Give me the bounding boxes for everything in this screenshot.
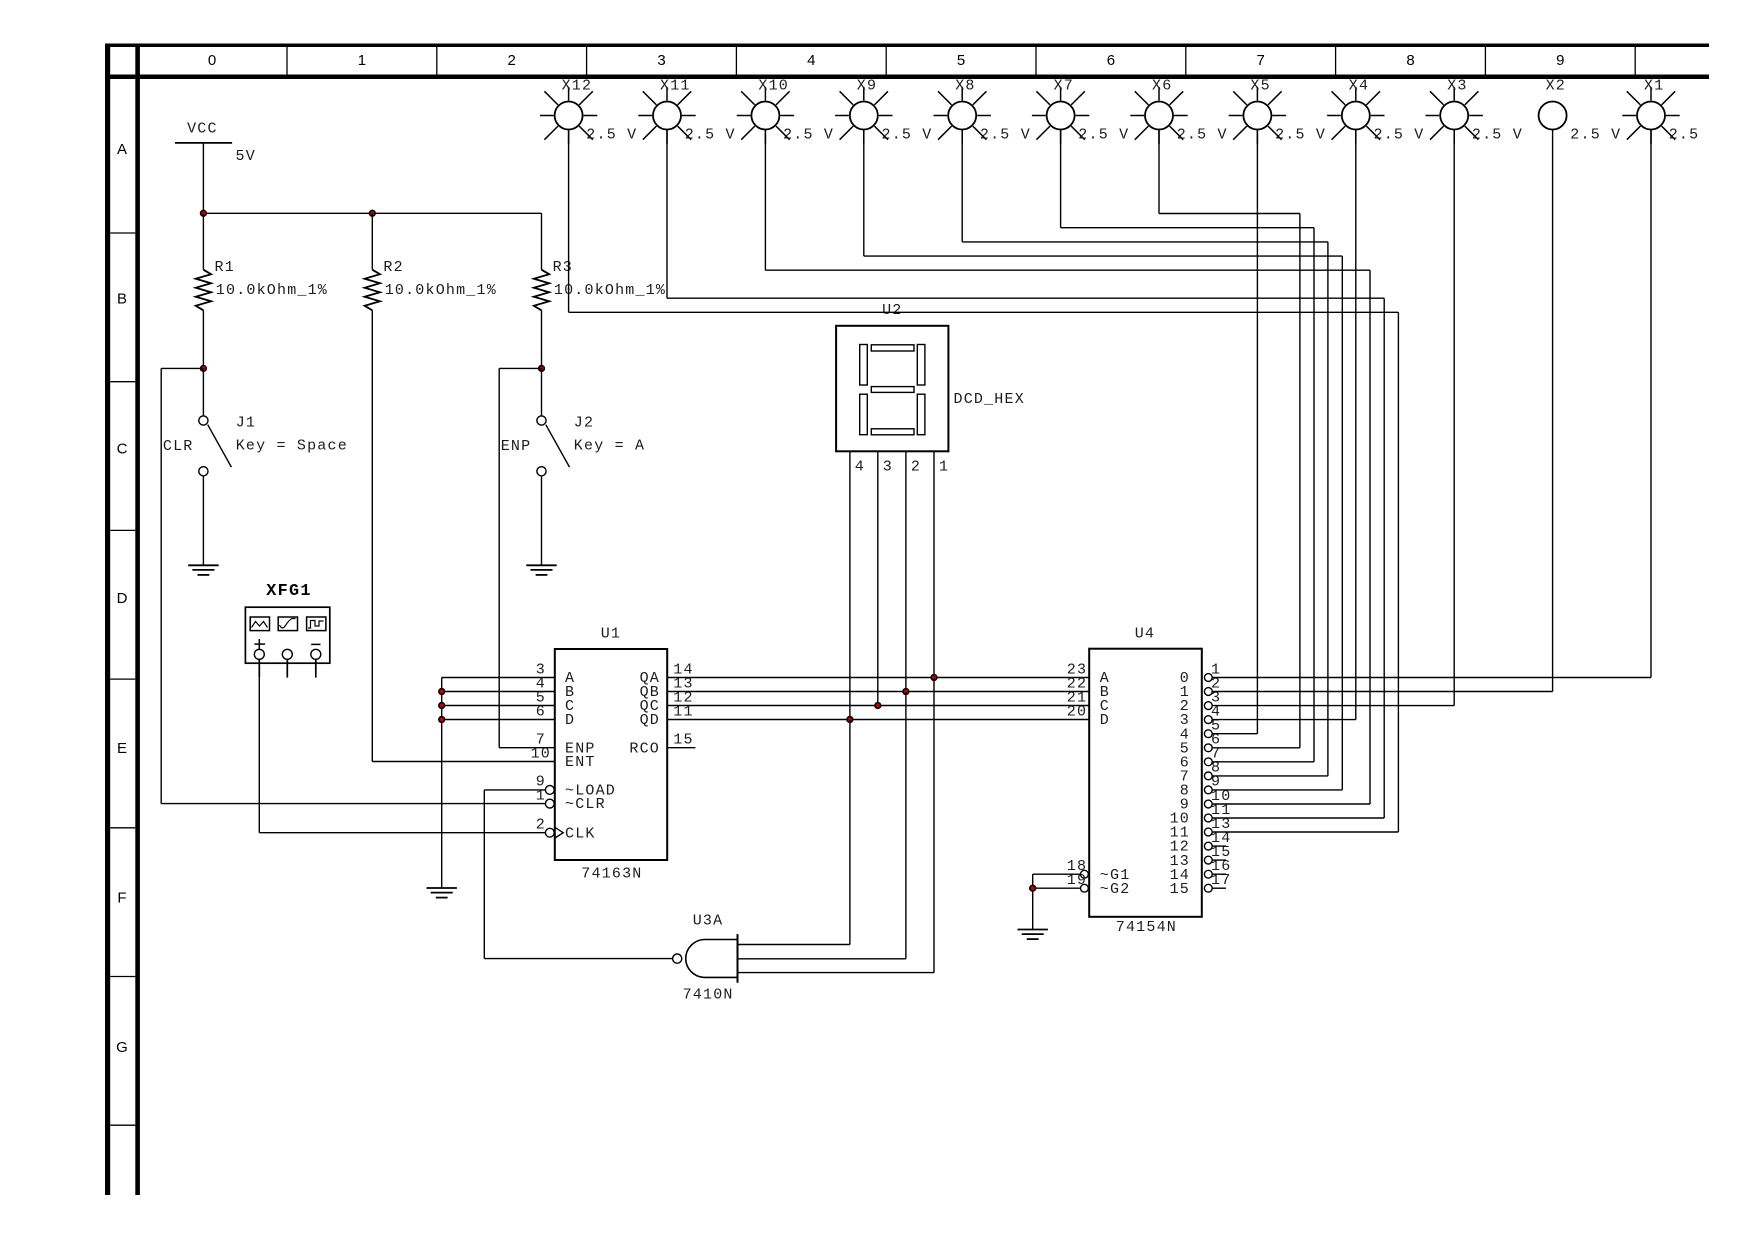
- value X11 2.5 V: [685, 127, 736, 144]
- wire U4 output 11: [1212, 831, 1398, 833]
- value X10 2.5 V: [783, 127, 834, 144]
- svg-text:5V: 5V: [236, 148, 256, 165]
- svg-text:X10: X10: [758, 78, 789, 95]
- value X2 2.5 V: [1570, 127, 1621, 144]
- svg-text:X3: X3: [1447, 78, 1467, 95]
- wire lamp X4 to U4 output 3: [1355, 130, 1357, 720]
- label X10: [758, 78, 789, 95]
- wire U2 pin2 to QB: [905, 451, 907, 691]
- U1 pin labels: [565, 670, 660, 842]
- svg-text:VCC: VCC: [187, 121, 218, 138]
- value 5V: [236, 148, 256, 165]
- wire U4 output 4: [1212, 733, 1257, 735]
- lamp X5: [1229, 87, 1286, 144]
- label X6: [1152, 78, 1172, 95]
- value X9 2.5 V: [882, 127, 933, 144]
- svg-text:8: 8: [1406, 52, 1414, 69]
- wire QA (U1 to U4): [667, 677, 1089, 679]
- svg-text:2.5 V: 2.5 V: [882, 127, 933, 144]
- label X1: [1644, 78, 1664, 95]
- ground below J2: [526, 563, 556, 575]
- svg-text:R1: R1: [215, 259, 235, 276]
- wire QD to U3A input 1: [738, 720, 850, 945]
- wire lamp X5 to U4 output 4: [1256, 130, 1258, 734]
- power VCC: [175, 143, 232, 213]
- svg-text:X8: X8: [955, 78, 975, 95]
- svg-text:15: 15: [673, 732, 693, 749]
- wire CLK (XFG1 to U1): [259, 678, 545, 833]
- label J2: [574, 414, 594, 431]
- svg-text:3: 3: [657, 52, 665, 69]
- value R1 10.0kOhm_1%: [216, 282, 328, 299]
- node QD-U2 junction: [847, 717, 853, 723]
- svg-text:10: 10: [531, 745, 551, 762]
- label U2: [882, 302, 902, 319]
- wire QD (U1 to U4): [667, 719, 1089, 721]
- svg-text:X7: X7: [1054, 78, 1074, 95]
- label R1: [215, 259, 235, 276]
- svg-text:10.0kOhm_1%: 10.0kOhm_1%: [554, 282, 666, 299]
- wire lamp X2 to U4 output 1: [1552, 130, 1554, 692]
- label U4: [1135, 625, 1155, 642]
- svg-text:4: 4: [855, 459, 865, 476]
- wire ~G1 ~G2 to ground: [1033, 874, 1081, 927]
- svg-text:2.5 V: 2.5 V: [685, 127, 736, 144]
- svg-text:20: 20: [1067, 703, 1087, 720]
- lamp X4: [1327, 87, 1384, 144]
- value R2 10.0kOhm_1%: [385, 282, 497, 299]
- ground below U4: [1018, 928, 1048, 940]
- node B junction: [439, 689, 445, 695]
- label X3: [1447, 78, 1467, 95]
- svg-text:E: E: [117, 740, 127, 757]
- counter U1 74163N: [545, 649, 695, 860]
- value U3A 7410N: [683, 987, 734, 1004]
- lamp X7: [1032, 87, 1089, 144]
- svg-text:C: C: [117, 440, 128, 457]
- svg-text:2: 2: [536, 817, 546, 834]
- value R3 10.0kOhm_1%: [554, 282, 666, 299]
- svg-text:RCO: RCO: [629, 740, 660, 757]
- svg-text:3: 3: [883, 459, 893, 476]
- svg-text:2: 2: [911, 459, 921, 476]
- value X3 2.5 V: [1472, 127, 1523, 144]
- node C junction: [439, 703, 445, 709]
- value U1 74163N: [581, 865, 642, 882]
- svg-text:J2: J2: [574, 414, 594, 431]
- svg-text:X4: X4: [1349, 78, 1369, 95]
- svg-text:6: 6: [536, 703, 546, 720]
- svg-text:X1: X1: [1644, 78, 1664, 95]
- label X7: [1054, 78, 1074, 95]
- value U4 74154N: [1116, 919, 1177, 936]
- svg-text:X5: X5: [1250, 78, 1270, 95]
- label X8: [955, 78, 975, 95]
- svg-text:10.0kOhm_1%: 10.0kOhm_1%: [385, 282, 497, 299]
- svg-text:74154N: 74154N: [1116, 919, 1177, 936]
- svg-text:QD: QD: [640, 712, 660, 729]
- node ~G2 junction: [1030, 885, 1036, 891]
- svg-text:1: 1: [358, 52, 366, 69]
- value J2 Key = A: [574, 437, 645, 454]
- node QC-U2 junction: [875, 703, 881, 709]
- decoder U4 74154N: [1081, 649, 1213, 917]
- value X4 2.5 V: [1374, 127, 1425, 144]
- wire U2 pin3 to QC: [877, 451, 879, 705]
- U4 pin numbers: [1067, 661, 1232, 889]
- svg-text:ENP: ENP: [501, 438, 532, 455]
- svg-text:4: 4: [807, 52, 815, 69]
- label J1: [236, 414, 256, 431]
- label U1: [601, 626, 621, 643]
- node VCC-R2 junction: [369, 210, 375, 216]
- node R1-J1 junction: [201, 366, 207, 372]
- svg-text:2.5 V: 2.5 V: [1177, 127, 1228, 144]
- wire U4 output 3: [1212, 719, 1356, 721]
- ground below J1: [188, 563, 218, 575]
- wire U4 output 5: [1212, 747, 1300, 749]
- svg-text:6: 6: [1107, 52, 1115, 69]
- svg-text:B: B: [117, 291, 127, 308]
- label X12: [562, 78, 593, 95]
- svg-text:~G2: ~G2: [1100, 881, 1131, 898]
- svg-text:2.5 V: 2.5 V: [783, 127, 834, 144]
- svg-text:F: F: [117, 890, 126, 907]
- svg-text:X2: X2: [1546, 78, 1566, 95]
- lamp X6: [1130, 87, 1187, 144]
- wire lamp X6 to U4 output 5: [1159, 130, 1300, 748]
- svg-text:2.5 V: 2.5 V: [980, 127, 1031, 144]
- value X7 2.5 V: [1078, 127, 1129, 144]
- wire lamp X1 to U4 output 0: [1650, 130, 1652, 678]
- svg-text:A: A: [117, 141, 127, 158]
- svg-text:2.5 V: 2.5 V: [586, 127, 637, 144]
- lamp X8: [934, 87, 991, 144]
- wire QB (U1 to U4): [667, 691, 1089, 693]
- svg-text:DCD_HEX: DCD_HEX: [954, 391, 1025, 408]
- svg-text:15: 15: [1170, 881, 1190, 898]
- U1 pin numbers: [531, 661, 694, 833]
- wire ENT (R2 to U1): [372, 310, 555, 761]
- U4 pin labels: [1100, 670, 1190, 898]
- svg-text:Key = A: Key = A: [574, 437, 645, 454]
- svg-text:X9: X9: [857, 78, 877, 95]
- svg-text:D: D: [1100, 712, 1110, 729]
- wire QB to U3A input 2: [738, 692, 906, 959]
- svg-text:0: 0: [208, 52, 216, 69]
- svg-text:R3: R3: [553, 259, 573, 276]
- svg-text:U3A: U3A: [693, 913, 724, 930]
- wire U4 output 14 stub: [1212, 873, 1226, 875]
- svg-text:~CLR: ~CLR: [565, 796, 606, 813]
- wire U4 output 9: [1212, 803, 1370, 805]
- wire lamp X3 to U4 output 2: [1453, 130, 1455, 706]
- lamp X9: [835, 87, 892, 144]
- node D junction: [439, 717, 445, 723]
- svg-text:2.5 V: 2.5 V: [1374, 127, 1425, 144]
- wire U4 output 6: [1212, 761, 1314, 763]
- wire U4 output 1: [1212, 691, 1552, 693]
- node QA-U2 junction: [931, 675, 937, 681]
- svg-text:2.5 V: 2.5 V: [1570, 127, 1621, 144]
- label R3: [553, 259, 573, 276]
- svg-text:X6: X6: [1152, 78, 1172, 95]
- wire U3A output to ~LOAD: [484, 790, 672, 959]
- wire U4 output 15 stub: [1212, 887, 1226, 889]
- svg-text:X12: X12: [562, 78, 593, 95]
- nand gate U3A: [673, 934, 738, 983]
- node CLR: [163, 438, 194, 455]
- node QB-U2 junction: [903, 689, 909, 695]
- value X1 2.5 V: [1669, 127, 1700, 144]
- switch J2: [537, 368, 570, 563]
- svg-text:XFG1: XFG1: [266, 582, 312, 601]
- wire U2 pin4 to QD: [849, 451, 851, 719]
- label X5: [1250, 78, 1270, 95]
- value X12 2.5 V: [586, 127, 637, 144]
- node R3-J2 junction: [539, 366, 545, 372]
- svg-text:2.5 V: 2.5 V: [1472, 127, 1523, 144]
- node VCC-R1 junction: [201, 210, 207, 216]
- svg-text:9: 9: [1556, 52, 1564, 69]
- svg-text:7: 7: [1257, 52, 1265, 69]
- svg-text:Key = Space: Key = Space: [236, 437, 348, 454]
- wire U2 pin1 to QA: [933, 451, 935, 677]
- wire U4 output 7: [1212, 775, 1328, 777]
- lamp X3: [1426, 87, 1483, 144]
- label R2: [383, 259, 403, 276]
- label X11: [660, 78, 691, 95]
- wire U4 output 8: [1212, 789, 1342, 791]
- svg-text:G: G: [116, 1039, 128, 1056]
- lamp X11: [638, 87, 695, 144]
- svg-text:X11: X11: [660, 78, 691, 95]
- wire U4 output 13 stub: [1212, 859, 1226, 861]
- svg-text:R2: R2: [383, 259, 403, 276]
- wire lamp X9 to U4 output 8: [864, 130, 1343, 790]
- function generator XFG1: [245, 582, 329, 678]
- wire lamp X7 to U4 output 6: [1061, 130, 1314, 762]
- lamp X10: [737, 87, 794, 144]
- wire U4 output 12 stub: [1212, 845, 1226, 847]
- wire QC (U1 to U4): [667, 705, 1089, 707]
- label X2: [1546, 78, 1566, 95]
- lamp X2: [1539, 102, 1567, 130]
- svg-text:J1: J1: [236, 414, 256, 431]
- svg-text:U2: U2: [882, 302, 902, 319]
- resistor R1: [196, 213, 211, 368]
- switch J1: [199, 368, 232, 563]
- svg-text:74163N: 74163N: [581, 865, 642, 882]
- svg-text:D: D: [565, 712, 575, 729]
- ground below A-D wire: [427, 886, 457, 898]
- svg-text:D: D: [117, 590, 128, 607]
- value U2 DCD_HEX: [954, 391, 1025, 408]
- svg-text:2: 2: [508, 52, 516, 69]
- svg-text:2.5 V: 2.5 V: [1078, 127, 1129, 144]
- wire lamp X10 to U4 output 9: [765, 130, 1370, 805]
- label U3A: [693, 913, 724, 930]
- svg-text:CLK: CLK: [565, 825, 596, 842]
- svg-text:ENT: ENT: [565, 754, 596, 771]
- wire lamp X12 to U4 output 11: [569, 130, 1399, 833]
- svg-text:7410N: 7410N: [683, 987, 734, 1004]
- wire ENP (J2 to U1): [499, 368, 555, 747]
- wire ~CLR (J1 to U1): [161, 368, 546, 803]
- svg-text:2.5 V: 2.5 V: [1275, 127, 1326, 144]
- lamp X12: [540, 87, 597, 144]
- display U2 DCD_HEX: [836, 326, 948, 452]
- svg-text:5: 5: [957, 52, 965, 69]
- wire VCC rail: [203, 212, 541, 214]
- label VCC: [187, 121, 218, 138]
- svg-text:CLR: CLR: [163, 438, 194, 455]
- node ENP: [501, 438, 532, 455]
- svg-text:U1: U1: [601, 626, 621, 643]
- U2 pin numbers: [855, 459, 950, 476]
- wire U4 output 10: [1212, 817, 1384, 819]
- wire lamp X8 to U4 output 7: [962, 130, 1328, 776]
- value X8 2.5 V: [980, 127, 1031, 144]
- lamp X1: [1622, 87, 1679, 144]
- wire U4 output 2: [1212, 705, 1454, 707]
- resistor R3: [534, 213, 549, 368]
- wire A-D to ground: [442, 678, 555, 887]
- resistor R2: [365, 213, 380, 310]
- wire U4 output 0: [1212, 677, 1651, 679]
- label X9: [857, 78, 877, 95]
- wire QA to U3A input 3: [738, 678, 935, 973]
- svg-text:U4: U4: [1135, 625, 1155, 642]
- wire lamp X11 to U4 output 10: [667, 130, 1384, 819]
- value X6 2.5 V: [1177, 127, 1228, 144]
- label X4: [1349, 78, 1369, 95]
- svg-text:10.0kOhm_1%: 10.0kOhm_1%: [216, 282, 328, 299]
- svg-text:1: 1: [939, 459, 949, 476]
- value J1 Key = Space: [236, 437, 348, 454]
- svg-text:2.5: 2.5: [1669, 127, 1700, 144]
- value X5 2.5 V: [1275, 127, 1326, 144]
